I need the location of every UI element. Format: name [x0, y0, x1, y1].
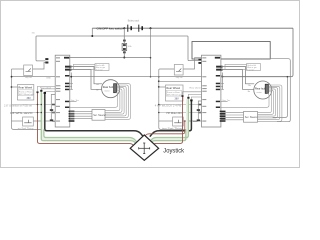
- svg-text:Rear Wheel: Rear Wheel: [18, 86, 32, 90]
- joystick diamond: [130, 135, 158, 160]
- controller U2 power input pins: [198, 59, 201, 61]
- connector wheel option box left: [12, 85, 34, 101]
- wire loops right: [258, 92, 272, 113]
- wire M+: [70, 67, 102, 84]
- wire loop k3: [105, 88, 124, 115]
- svg-text:4 HP WLOCK 2 4 PB: 4 HP WLOCK 2 4 PB: [155, 105, 182, 107]
- wire hall lines: [70, 84, 73, 90]
- node junction battery left: [123, 27, 125, 29]
- svg-text:Rear Wheel: Rear Wheel: [166, 86, 180, 90]
- wire to right wheel box y=87: [159, 86, 166, 88]
- wire loop k6: [105, 84, 130, 120]
- svg-text:key sw: key sw: [176, 77, 183, 79]
- controller U1 power input pins: [45, 58, 48, 60]
- wire label row y=104.5: [12, 104, 56, 106]
- switch S5 speed switch box right: [159, 117, 202, 126]
- wire jog from neg bus up to switch line: [91, 28, 93, 36]
- svg-text:36V: 36V: [27, 97, 32, 100]
- wire loop k1: [105, 90, 120, 110]
- wire red 2 joystick right: [145, 121, 185, 136]
- svg-text:24v: 24v: [248, 85, 251, 87]
- node junction neg bus: [91, 35, 93, 37]
- fuse F1 body: [122, 40, 132, 54]
- wire black joystick right: [150, 101, 192, 137]
- node junction battery right: [150, 27, 152, 29]
- wire battery negative bus y=36: [36, 36, 188, 60]
- wire B+ feed line y=57.7: [70, 57, 151, 59]
- wire neg feed to U2: [188, 60, 198, 61]
- connector pins aux left: [50, 109, 53, 111]
- wire loop k4: [105, 86, 126, 116]
- node junction left M column: [70, 76, 72, 78]
- wire battery positive bus y=28: [92, 27, 293, 29]
- wire green B joystick short: [44, 129, 137, 142]
- wire green A joystick long: [41, 91, 136, 144]
- U1 right edge inner labels dark: [64, 57, 72, 108]
- node junction right column top: [158, 76, 160, 78]
- wire M-: [70, 70, 102, 90]
- wire green A joystick right long: [149, 98, 188, 142]
- pin tips U2 left rows: [198, 104, 201, 106]
- fuse F1 lead: [123, 28, 125, 57]
- node junction right column y87: [158, 86, 160, 88]
- U1 bottom right pin cluster: [69, 111, 75, 122]
- frame border: [1, 1, 300, 168]
- node junction right column y81: [158, 80, 160, 82]
- wire B+ pin line right: [221, 59, 290, 122]
- wire right pin bus y=81.3: [159, 80, 202, 82]
- cap green: [40, 90, 42, 92]
- svg-text:tan Spd Thing: tan Spd Thing: [162, 127, 183, 130]
- svg-text:M/C Wheel opt: M/C Wheel opt: [167, 94, 182, 97]
- svg-text:Ne: Ne: [248, 91, 250, 93]
- svg-text:ON/OFF key switch: ON/OFF key switch: [97, 27, 124, 31]
- svg-text:8 gauge: 8 gauge: [247, 69, 254, 71]
- connector wheel option box right: [166, 85, 184, 101]
- switch S4 power switch box right: [159, 58, 202, 79]
- svg-text:36V: 36V: [175, 98, 180, 101]
- cable label box: [95, 64, 109, 72]
- wire gray aux vertical: [51, 95, 55, 122]
- connector pins aux right: [197, 109, 200, 111]
- node dots rows: [37, 104, 39, 106]
- svg-text:24v: 24v: [96, 84, 99, 86]
- svg-text:key sw: key sw: [25, 77, 32, 79]
- U1 left edge inner labels: [56, 57, 60, 121]
- wire loop k2: [105, 89, 122, 113]
- controller U1 body: [55, 55, 74, 127]
- svg-text:HP Rider 24V: HP Rider 24V: [167, 112, 183, 115]
- node dots on far-left bus: [11, 76, 13, 78]
- svg-text:Rear hub: Rear hub: [255, 87, 266, 90]
- svg-text:Rear hub: Rear hub: [103, 86, 114, 89]
- wire green B joystick right short: [150, 129, 186, 143]
- wire right pin bus y=76.7 to right half: [70, 75, 291, 78]
- node junction pin bus x150.5: [150, 76, 152, 78]
- wire far-left vertical x=11.5: [12, 69, 44, 129]
- svg-text:Front or Rear: Front or Rear: [19, 91, 32, 94]
- green ribbon fill right: [150, 99, 187, 143]
- big rectangle outline: [192, 42, 270, 60]
- cap green right: [187, 97, 189, 99]
- node junction red2 tap: [184, 120, 186, 122]
- wire right edge drop x=295.5: [223, 28, 293, 76]
- svg-text:motor: motor: [104, 90, 110, 93]
- pin tips U1 left rows: [52, 104, 55, 106]
- wire label row right y=112.5: [159, 112, 202, 114]
- wire edge drop x=287.4: [273, 77, 288, 118]
- wire cap stubs right: [183, 92, 202, 100]
- wire neg feed to U1: [36, 60, 45, 61]
- cap red right: [182, 95, 184, 97]
- joystick crosshair: [139, 143, 150, 154]
- wire label row right y=104.5: [159, 104, 202, 106]
- svg-text:Ser. Steerer: Ser. Steerer: [245, 116, 258, 119]
- motor MOT1 body: [102, 80, 120, 98]
- cap black right: [190, 99, 192, 101]
- svg-text:Joystick: Joystick: [163, 147, 184, 154]
- wire right column vertical x=158.8: [159, 77, 186, 130]
- svg-text:en Spd Thing: en Spd Thing: [18, 128, 34, 130]
- svg-text:motor: motor: [257, 91, 263, 94]
- switch S3 speed switch box left: [12, 117, 56, 126]
- svg-text:Off WHL LEVO: Off WHL LEVO: [10, 112, 33, 115]
- wire fan input lines: [70, 111, 92, 118]
- wire loop k5: [105, 85, 128, 118]
- wire mid vertical x=150.5: [150, 28, 152, 76]
- wire black joystick: [45, 93, 144, 136]
- svg-text:Ser. Steerer: Ser. Steerer: [93, 114, 106, 117]
- svg-text:Rear wheel: Rear wheel: [190, 86, 202, 89]
- cap black: [44, 92, 46, 94]
- wire label row y=112.5: [12, 112, 56, 114]
- svg-text:M/C Wheel opt: M/C Wheel opt: [19, 93, 34, 96]
- wire sensor pin line y=107.3 innermost loop: [70, 92, 118, 107]
- fan box left: [92, 110, 106, 121]
- node junction fuse bottom: [123, 57, 125, 59]
- wire gray aux vertical right: [193, 101, 202, 122]
- wire left pin bus y=76.7 left half: [12, 76, 56, 78]
- node junction B+ feed x150.5: [150, 57, 152, 59]
- svg-text:GND: GND: [46, 78, 51, 80]
- svg-text:2.8" Gearbox or FGB set: 2.8" Gearbox or FGB set: [4, 104, 32, 107]
- battery BT1 cells: [128, 25, 142, 32]
- svg-text:8 gauge: 8 gauge: [96, 69, 103, 71]
- green ribbon fill: [43, 93, 137, 143]
- svg-text:Ne: Ne: [96, 90, 98, 92]
- svg-text:30A: 30A: [128, 45, 132, 48]
- wire cap stubs left: [38, 86, 56, 92]
- switch S2 power switch box left: [12, 63, 46, 80]
- cap red: [37, 91, 39, 93]
- cable sleeve box: [74, 64, 96, 69]
- wire red joystick right: [152, 96, 183, 146]
- svg-text:Front or Rear: Front or Rear: [167, 91, 180, 94]
- motor MOT1 terminal block: [114, 84, 117, 93]
- wire red joystick: [38, 92, 134, 146]
- circuit schematic: dual motor controller wiring with joystick: [0, 0, 300, 168]
- svg-text:Battery pack: Battery pack: [128, 19, 140, 23]
